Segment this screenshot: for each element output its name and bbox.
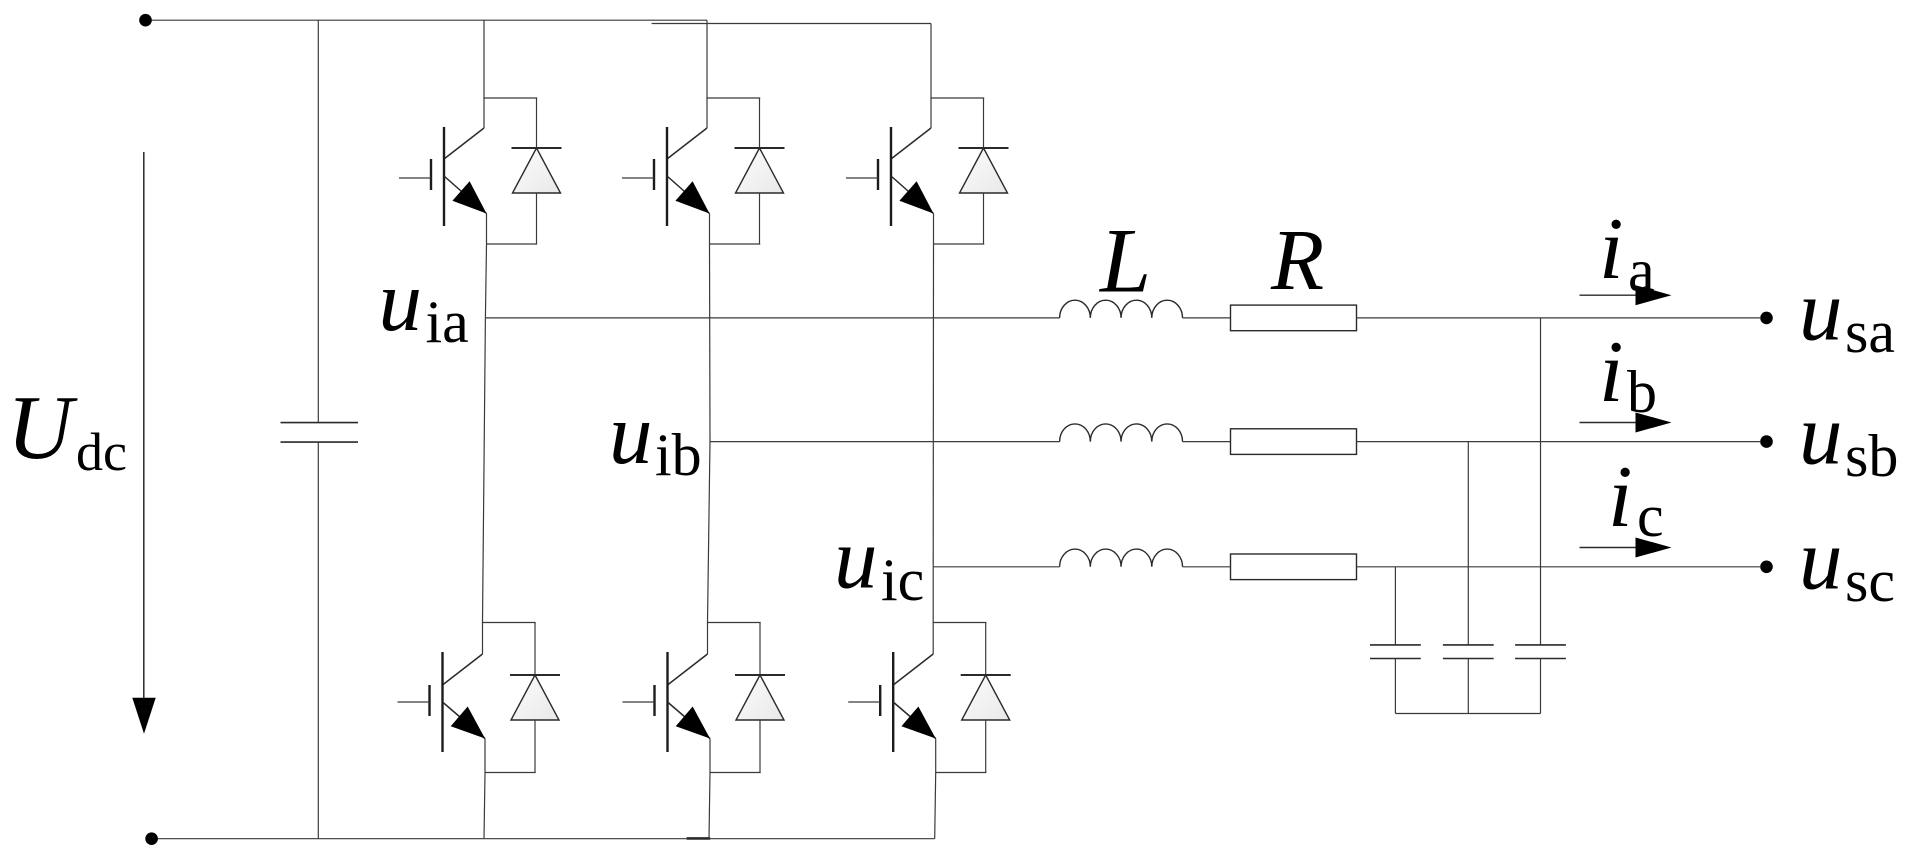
inductor L phase a: [1060, 300, 1183, 318]
wire resistor to output terminal, phase a: [1357, 317, 1761, 319]
svg-text:u: u: [1799, 511, 1843, 608]
diode freewheeling, phase b lower: [735, 623, 785, 773]
wire capacitor Cc to neutral rail: [1394, 659, 1396, 714]
wire phase a leg, lower emitter to DC- rail: [484, 773, 485, 839]
diode freewheeling, phase b upper: [735, 98, 785, 244]
wire resistor to output terminal, phase b: [1357, 441, 1761, 443]
wire top jog phase c lower cell: [933, 622, 987, 624]
capacitor filter Cb plates: [1443, 645, 1494, 659]
wire bottom jog phase b upper cell: [710, 243, 761, 245]
wire top jog phase c upper cell: [930, 97, 984, 99]
diode freewheeling, phase c lower: [961, 623, 1011, 773]
wire current arrow i_a: [1580, 294, 1641, 296]
wire phase c leg, upper emitter to lower cell (node u_ic): [932, 244, 934, 567]
svg-text:u: u: [609, 385, 653, 482]
wire node u_ic to filter inductor, phase c: [933, 566, 1059, 568]
diode freewheeling, phase a lower: [510, 623, 560, 773]
label u_sa source voltage: [1799, 262, 1895, 366]
transistor lower IGBT phase c: [848, 623, 936, 773]
svg-text:ib: ib: [655, 422, 702, 488]
capacitor DC link plates: [281, 423, 359, 443]
svg-text:sa: sa: [1845, 299, 1895, 365]
wire stub at phase b leg / DC- rail junction: [687, 837, 711, 840]
node output terminal u_sc: [1760, 561, 1773, 574]
resistor R phase b: [1231, 429, 1357, 455]
wire resistor to output terminal, phase c: [1357, 566, 1761, 568]
svg-text:ic: ic: [881, 547, 924, 613]
diode freewheeling, phase a upper: [512, 98, 562, 244]
capacitor DC link, lower lead: [317, 442, 319, 839]
wire top jog phase b lower cell: [707, 622, 761, 624]
wire phase c leg, rail to upper cell: [930, 24, 932, 99]
wire inductor to resistor, phase c: [1183, 566, 1231, 568]
svg-text:dc: dc: [76, 422, 127, 482]
resistor R phase c: [1231, 554, 1357, 580]
node DC+ terminal: [139, 14, 152, 27]
label i_b current: [1599, 324, 1657, 425]
svg-text:u: u: [834, 510, 878, 607]
wire inductor to resistor, phase b: [1183, 441, 1231, 443]
capacitor DC link, upper lead: [317, 20, 319, 422]
label u_sc source voltage: [1799, 511, 1895, 615]
transistor upper IGBT phase b: [622, 98, 710, 244]
label u_ia node: [379, 252, 469, 355]
svg-text:u: u: [1799, 262, 1843, 359]
wire top rail extension to phase c leg: [652, 23, 931, 25]
node DC- terminal: [145, 832, 158, 845]
svg-text:ia: ia: [426, 289, 469, 355]
label u_ib node: [609, 385, 702, 488]
svg-text:U: U: [7, 377, 78, 478]
arrowhead i_c: [1636, 538, 1672, 558]
wire bottom DC- rail: [152, 838, 935, 840]
wire bottom jog phase c upper cell: [934, 243, 985, 245]
svg-text:u: u: [379, 252, 423, 349]
wire bottom jog phase a upper cell: [487, 243, 538, 245]
wire phase a leg, upper emitter to lower cell (node u_ia): [485, 244, 486, 318]
svg-text:i: i: [1608, 449, 1632, 546]
capacitor filter Ca plates: [1515, 645, 1566, 659]
svg-text:u: u: [1799, 386, 1843, 483]
label u_sb source voltage: [1799, 386, 1898, 490]
svg-text:L: L: [1098, 210, 1151, 312]
svg-text:sc: sc: [1845, 548, 1895, 614]
transistor lower IGBT phase a: [398, 623, 486, 773]
node output terminal u_sa: [1760, 312, 1773, 325]
wire node u_ia to filter inductor, phase a: [485, 317, 1059, 319]
wire current arrow i_c: [1580, 547, 1641, 549]
Udc arrowhead: [132, 698, 155, 734]
wire phase b leg, lower emitter to DC- rail: [709, 773, 710, 839]
wire top jog phase a lower cell: [482, 622, 536, 624]
arrowhead i_a: [1636, 285, 1672, 305]
transistor upper IGBT phase a: [399, 98, 487, 244]
wire top jog phase a upper cell: [483, 97, 537, 99]
svg-text:sb: sb: [1845, 423, 1898, 489]
wire filter-capacitor branch, phase a: [1540, 318, 1542, 645]
wire inductor to resistor, phase a: [1183, 317, 1231, 319]
label i_c current: [1608, 449, 1664, 549]
inductor L phase b: [1060, 424, 1183, 442]
wire phase b leg, upper emitter to lower cell (node u_ib): [709, 244, 712, 442]
svg-text:c: c: [1637, 483, 1664, 549]
wire phase a leg, rail to upper cell: [483, 20, 485, 98]
wire bottom jog phase c lower cell: [936, 772, 987, 774]
transistor lower IGBT phase b: [623, 623, 711, 773]
svg-text:R: R: [1270, 211, 1324, 308]
inductor L phase c: [1060, 549, 1183, 567]
capacitor filter Cc plates: [1370, 645, 1421, 659]
wire phase c leg, lower emitter to DC- rail: [935, 773, 936, 839]
svg-text:b: b: [1627, 359, 1657, 425]
svg-text:i: i: [1599, 201, 1623, 298]
wire top jog phase b upper cell: [706, 97, 760, 99]
label Udc: [7, 377, 127, 482]
wire filter-capacitor branch, phase b: [1467, 442, 1469, 645]
transistor upper IGBT phase c: [846, 98, 934, 244]
wire current arrow i_b: [1580, 422, 1641, 424]
svg-text:i: i: [1599, 324, 1623, 421]
wire top DC+ rail: [146, 19, 708, 21]
label u_ic node: [834, 510, 924, 614]
wire capacitor Ca to neutral rail: [1540, 659, 1542, 714]
wire filter capacitor neutral rail: [1395, 713, 1540, 715]
svg-text:a: a: [1628, 238, 1655, 304]
arrowhead i_b: [1636, 413, 1672, 433]
wire node u_ib to filter inductor, phase b: [710, 441, 1060, 443]
wire bottom jog phase a lower cell: [485, 772, 536, 774]
wire filter-capacitor branch, phase c: [1394, 567, 1396, 645]
resistor R phase a: [1231, 305, 1357, 331]
wire Udc voltage arrow line: [143, 152, 145, 700]
diode freewheeling, phase c upper: [959, 98, 1009, 244]
label i_a current: [1599, 201, 1655, 304]
wire capacitor Cb to neutral rail: [1467, 659, 1469, 714]
node output terminal u_sb: [1760, 435, 1773, 448]
wire phase b leg, rail to upper cell: [706, 20, 708, 98]
wire bottom jog phase b lower cell: [710, 772, 761, 774]
